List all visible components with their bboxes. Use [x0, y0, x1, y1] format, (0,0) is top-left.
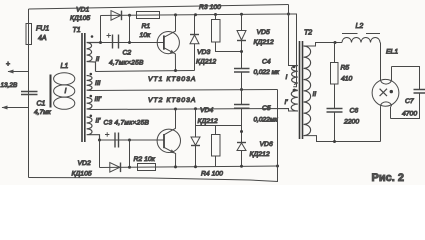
svg-text:III': III': [95, 96, 102, 103]
diode VD4: [195, 109, 197, 137]
svg-text:I: I: [286, 74, 288, 81]
svg-text:0,022мк: 0,022мк: [254, 116, 279, 123]
svg-text:VD3: VD3: [197, 49, 210, 56]
T1 winding II: [87, 43, 101, 72]
svg-text:10к: 10к: [140, 32, 152, 39]
wire T2 primary top connection: [289, 5, 298, 66]
svg-text:II: II: [96, 56, 100, 63]
capacitor C3 with rail y140: [100, 139, 164, 141]
svg-text:VT1 КТ803А: VT1 КТ803А: [148, 76, 196, 83]
transformer T1 core: [82, 33, 85, 142]
svg-text:0,022 мк: 0,022 мк: [254, 69, 281, 76]
svg-text:КД105: КД105: [70, 15, 90, 22]
svg-text:13,2В: 13,2В: [1, 82, 18, 89]
svg-text:VD5: VD5: [257, 29, 270, 36]
svg-text:2200: 2200: [343, 118, 359, 125]
svg-text:R2 10к: R2 10к: [134, 156, 156, 163]
resistor R1: [137, 12, 160, 19]
svg-text:КД212: КД212: [196, 58, 216, 65]
wire mid rail y166.5: [100, 166, 278, 168]
resistor R5: [334, 43, 336, 63]
wire L2 to lamp: [379, 43, 382, 80]
svg-text:С5: С5: [262, 105, 271, 112]
svg-text:II': II': [96, 118, 102, 125]
svg-text:R1: R1: [142, 23, 151, 30]
wire top rail: [29, 5, 289, 10]
diode VD3: [194, 15, 196, 35]
svg-text:С6: С6: [350, 108, 359, 115]
svg-text:КД212: КД212: [254, 39, 274, 46]
svg-text:II: II: [313, 91, 317, 98]
diode VD1: [111, 11, 121, 21]
svg-text:+: +: [6, 61, 10, 68]
T1 winding III': [87, 98, 92, 110]
transistor VT1: [157, 31, 179, 53]
wire input vertical: [28, 9, 30, 178]
svg-text:С7: С7: [405, 98, 414, 105]
svg-text:4,7мк×25В: 4,7мк×25В: [109, 59, 144, 66]
T2 winding II secondary: [304, 46, 311, 136]
capacitor C1: [21, 92, 38, 95]
svg-text:VD4: VD4: [200, 107, 213, 114]
transformer T2 core: [300, 41, 303, 139]
resistor R2: [138, 164, 156, 171]
lamp EL1: [372, 79, 399, 106]
svg-text:Рис. 2: Рис. 2: [372, 172, 404, 184]
T2 winding I: [292, 66, 298, 85]
diode VD5: [241, 14, 243, 30]
wire rail y90: [92, 90, 278, 91]
wire x129 down: [129, 140, 131, 167]
svg-text:R4 100: R4 100: [201, 171, 223, 178]
diode VD2: [110, 163, 120, 173]
wire C2 rail (y42.5): [101, 42, 164, 44]
T2 winding I': [291, 89, 298, 111]
capacitor C2: [113, 35, 119, 49]
svg-text:КД212: КД212: [198, 118, 218, 125]
wire emitter rail y71: [96, 71, 195, 72]
svg-text:VT2 КТ803А: VT2 КТ803А: [148, 97, 196, 104]
svg-text:4А: 4А: [38, 35, 47, 42]
svg-text:VD1: VD1: [76, 7, 89, 14]
wire T2 center tap connection: [289, 14, 297, 87]
wire rail VD1-R1 (y14): [101, 14, 289, 16]
svg-text:L1: L1: [61, 63, 69, 70]
terminal plus: [8, 71, 29, 73]
svg-text:С4: С4: [262, 59, 271, 66]
inductor L2: [342, 38, 380, 43]
capacitor C4: [234, 69, 250, 73]
svg-text:R5: R5: [341, 65, 350, 72]
T2 polarity dots: [293, 65, 296, 68]
svg-text:С3 4,7мк×25В: С3 4,7мк×25В: [104, 120, 150, 127]
diode VD6: [241, 126, 243, 143]
fuse FU1: [26, 24, 32, 45]
resistor R4: [212, 135, 221, 157]
wire x99 down: [99, 140, 101, 168]
wire left corner x100: [100, 16, 102, 43]
svg-text:R3 100: R3 100: [199, 4, 221, 11]
svg-text:I': I': [285, 99, 289, 106]
capacitor C6: [327, 109, 343, 113]
svg-text:III: III: [95, 80, 101, 87]
wire T2 secondary top to L2: [304, 43, 342, 47]
svg-text:410: 410: [341, 76, 353, 83]
wire x277 vertical: [277, 90, 279, 182]
svg-text:С1: С1: [37, 101, 46, 108]
inductor L1: [50, 75, 52, 108]
svg-text:4,7мк: 4,7мк: [34, 109, 52, 116]
transistor VT2: [157, 129, 180, 152]
capacitor C7: [392, 67, 420, 90]
wire bottom rail: [29, 178, 279, 182]
T1 winding III: [87, 76, 92, 91]
wire rail y125: [196, 125, 242, 127]
svg-text:VD6: VD6: [260, 141, 273, 148]
svg-text:EL1: EL1: [386, 49, 398, 56]
svg-text:FU1: FU1: [36, 26, 49, 33]
svg-text:I: I: [65, 88, 67, 95]
wire rail y109: [91, 109, 298, 112]
svg-text:VD2: VD2: [78, 160, 91, 167]
terminal minus: [2, 107, 29, 109]
svg-text:С2: С2: [123, 49, 132, 56]
junction dots rail y14: [128, 14, 131, 17]
wire bottom rail right section: [304, 136, 381, 142]
svg-text:L2: L2: [356, 23, 364, 30]
svg-text:КД105: КД105: [72, 171, 92, 178]
svg-text:Т2: Т2: [304, 30, 312, 37]
svg-text:КД212: КД212: [250, 151, 270, 158]
capacitor C5: [234, 105, 250, 109]
wire x129 top: [129, 15, 131, 42]
svg-text:Т1: Т1: [73, 27, 81, 34]
resistor R3: [212, 20, 221, 43]
T1 polarity dots: [91, 35, 94, 38]
svg-text:4700: 4700: [402, 111, 417, 118]
junction dots C2 rail: [99, 41, 102, 44]
T1 winding II': [87, 117, 100, 140]
